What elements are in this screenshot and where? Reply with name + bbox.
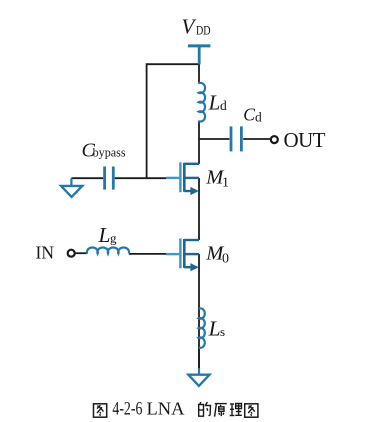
svg-text:s: s — [220, 324, 225, 339]
svg-text:DD: DD — [196, 24, 211, 38]
svg-text:IN: IN — [36, 242, 55, 262]
svg-text:C: C — [243, 104, 255, 124]
svg-text:LNA: LNA — [147, 399, 185, 419]
svg-text:OUT: OUT — [284, 128, 326, 152]
svg-text:L: L — [98, 223, 111, 247]
svg-text:V: V — [182, 15, 197, 39]
svg-text:bypass: bypass — [93, 145, 126, 160]
svg-text:d: d — [255, 109, 262, 124]
svg-text:L: L — [208, 90, 221, 114]
svg-text:L: L — [208, 317, 221, 341]
svg-text:g: g — [110, 231, 117, 246]
svg-text:1: 1 — [222, 175, 229, 190]
svg-text:0: 0 — [222, 251, 229, 266]
svg-text:4-2-6: 4-2-6 — [112, 400, 142, 420]
svg-text:d: d — [220, 98, 227, 113]
